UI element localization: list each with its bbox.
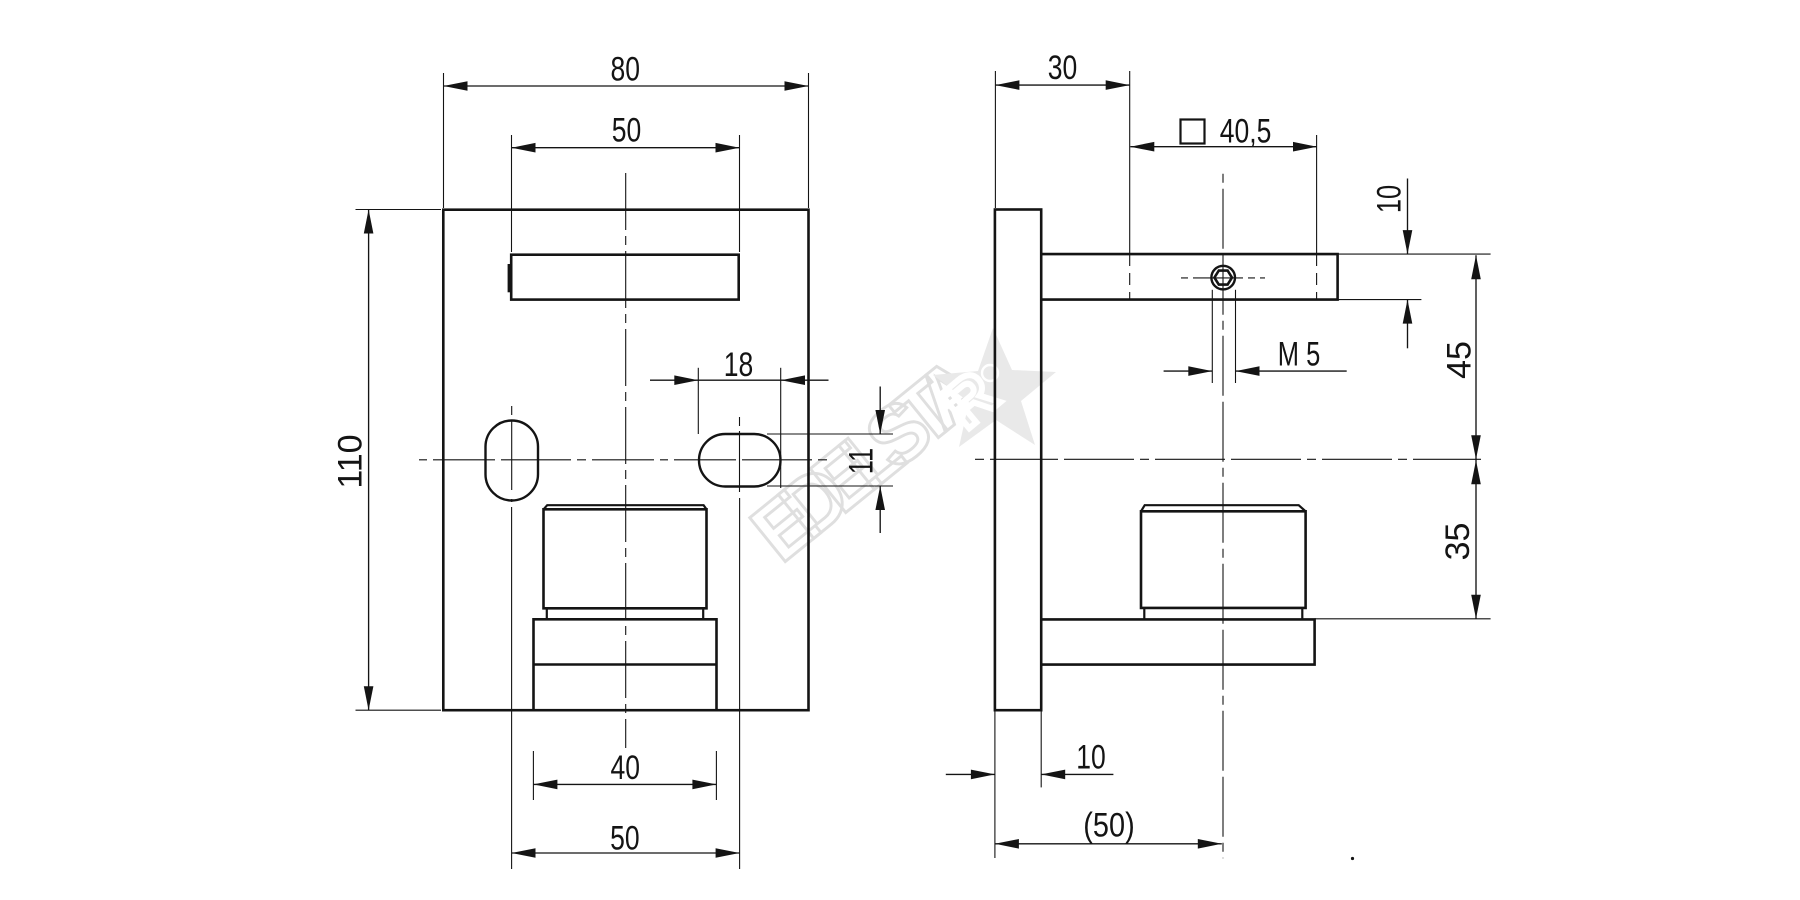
front view plate outline [443, 210, 808, 711]
right slotted hole [699, 434, 781, 487]
right hole centerline [739, 417, 741, 492]
svg-text:(50): (50) [1083, 805, 1134, 844]
boss front upper box [544, 505, 707, 608]
dimension 110 label [332, 434, 370, 488]
dimension 40,5 label [1220, 112, 1272, 150]
dimension 45 label [1441, 341, 1479, 379]
svg-text:10: 10 [1371, 185, 1408, 213]
svg-text:35: 35 [1439, 523, 1477, 561]
boss side base [1041, 619, 1315, 664]
svg-text:80: 80 [611, 51, 641, 89]
front view slot [511, 255, 739, 300]
svg-text:18: 18 [724, 346, 754, 384]
dimension 45 [1471, 255, 1481, 459]
side view vertical centerline [1222, 174, 1224, 859]
square symbol [1181, 120, 1205, 144]
watermark star [929, 328, 1056, 447]
dimension 80 [444, 73, 809, 208]
dimension 40 [533, 751, 716, 800]
dimension 10 arm label [1371, 185, 1408, 213]
dimension 35 [1315, 459, 1491, 619]
watermark EDELSTAR logo text [735, 340, 1000, 579]
dimension 50 top label [612, 111, 642, 149]
dimension 30 label [1048, 49, 1078, 87]
left hole centerline [511, 406, 513, 502]
svg-text:50: 50 [610, 819, 640, 857]
side view horizontal centerline [975, 458, 1487, 460]
dimension 110 [356, 210, 442, 711]
M5 hole hex socket [1214, 271, 1232, 285]
boss side neck [1144, 608, 1302, 620]
dimension 35 label [1439, 523, 1477, 561]
dimension 40 label [611, 749, 641, 787]
dimension 10 wall thickness [946, 710, 1114, 858]
svg-text:110: 110 [332, 434, 370, 488]
side view wall plate [995, 210, 1041, 711]
boss side upper box [1141, 505, 1306, 608]
dimension 10 wall label [1076, 738, 1106, 776]
dimension 18 label [724, 346, 754, 384]
dimension M5 label [1278, 336, 1321, 373]
boss front neck [547, 608, 703, 619]
stray dot [1351, 857, 1354, 860]
dimension 50 bottom label [610, 819, 640, 857]
svg-text:40,5: 40,5 [1220, 112, 1272, 150]
extension line from right hole center down [739, 498, 741, 869]
dimension 30 [995, 71, 1129, 300]
dimension 10 arm thickness [1338, 179, 1491, 349]
M5 hole outer circle [1211, 266, 1235, 290]
left slotted hole [486, 421, 539, 501]
dimension 18 [650, 368, 829, 488]
dimension square 40,5 [1130, 135, 1317, 300]
M5 hole horizontal centerline [1181, 277, 1265, 279]
dimension 50 bottom [512, 848, 740, 858]
dimension (50) label [1083, 805, 1134, 844]
svg-text:45: 45 [1441, 341, 1479, 379]
svg-text:11: 11 [843, 448, 880, 474]
extension line from left hole center down [511, 507, 513, 869]
svg-text:M 5: M 5 [1278, 336, 1321, 373]
dimension 80 label [611, 51, 641, 89]
dimension M5 [1164, 290, 1347, 383]
svg-text:10: 10 [1076, 738, 1106, 776]
slot left edge thick mark [508, 264, 513, 292]
dimension (50) [995, 839, 1222, 849]
dimension 11 [767, 387, 893, 534]
svg-text:50: 50 [612, 111, 642, 149]
boss front base [534, 619, 717, 710]
svg-text:40: 40 [611, 749, 641, 787]
svg-text:30: 30 [1048, 49, 1078, 87]
horizontal centerline front view [419, 459, 827, 461]
dimension 11 label [843, 448, 880, 474]
vertical centerline front view [625, 173, 627, 748]
dimension 50 top [512, 135, 740, 252]
side view arm [1041, 254, 1337, 300]
